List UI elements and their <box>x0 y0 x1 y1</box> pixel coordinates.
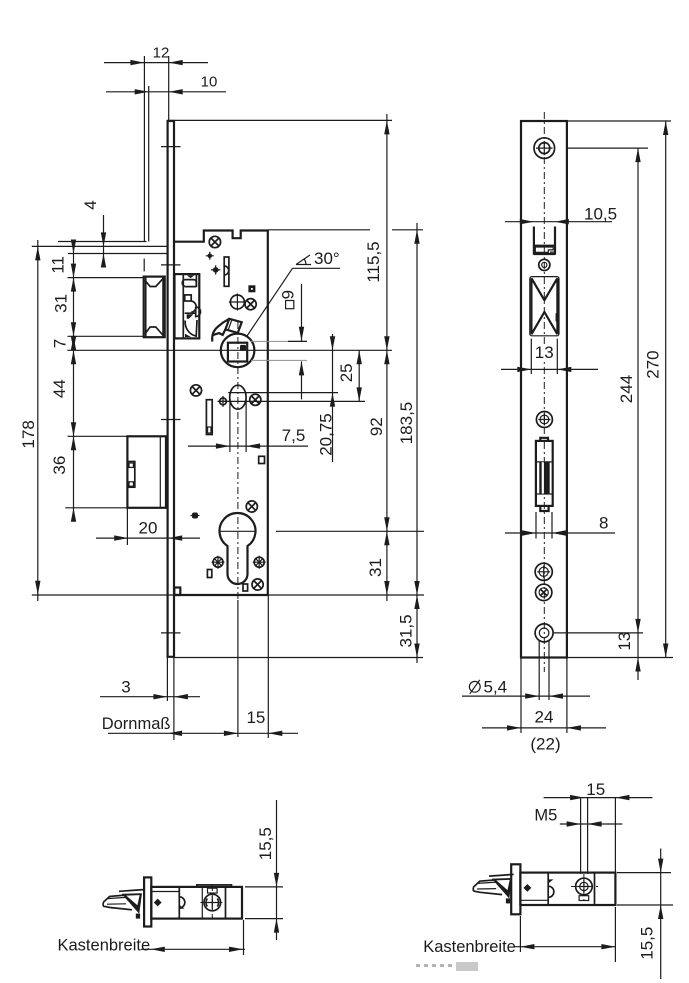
screw beside crosshair <box>245 299 256 310</box>
svg-text:7: 7 <box>51 339 70 348</box>
dimension 10,5 <box>505 205 617 234</box>
svg-text:20,75: 20,75 <box>317 413 336 456</box>
latch tail plate lines <box>32 242 168 272</box>
latch top extension <box>68 277 144 279</box>
M5 thread extension lines <box>581 798 588 874</box>
screw right of oval <box>250 394 261 405</box>
faceplate (Stulp) front view <box>168 121 174 657</box>
diamond rivet left view <box>154 899 162 907</box>
vertical centreline of lock axis <box>237 322 239 737</box>
screw above cylinder <box>246 501 257 512</box>
follower centreline <box>67 349 392 351</box>
spring slot <box>224 257 229 286</box>
guide slot <box>206 400 212 435</box>
svg-text:15: 15 <box>246 708 265 727</box>
latch nose right view <box>473 874 513 903</box>
dimension 15 bottom <box>544 780 653 873</box>
small rectangle mark <box>207 570 211 578</box>
dimension 10 <box>106 74 226 95</box>
dimension 13 lower <box>615 632 641 680</box>
svg-text:44: 44 <box>50 379 69 398</box>
top countersunk screw hole <box>534 138 555 159</box>
faceplate plan outline <box>521 121 567 658</box>
screw hole 3 <box>536 412 552 428</box>
deadbolt box <box>127 436 166 508</box>
rivet 2 <box>211 265 220 274</box>
svg-text:(22): (22) <box>530 735 560 754</box>
dimension 20 <box>96 519 200 541</box>
svg-text:270: 270 <box>644 350 663 378</box>
label 7 <box>51 339 70 348</box>
case top extension line <box>268 229 423 231</box>
lock case top view right <box>520 873 615 905</box>
rivet small <box>206 252 214 260</box>
svg-text:10: 10 <box>201 74 218 91</box>
svg-text:13: 13 <box>535 343 554 362</box>
faceplate bottom extension <box>567 657 673 659</box>
euro profile cylinder hole <box>219 513 255 584</box>
adjuster screw right <box>253 556 266 569</box>
dimension 15,5 right <box>617 849 673 980</box>
faceplate centreline <box>543 112 545 672</box>
svg-text:178: 178 <box>19 420 38 448</box>
dimension 20,75 <box>317 334 336 462</box>
label 36 <box>50 456 69 475</box>
bottom fixing hole <box>535 624 643 642</box>
deadbolt slot <box>536 438 553 511</box>
svg-text:25: 25 <box>337 363 356 382</box>
svg-text:183,5: 183,5 <box>397 402 416 445</box>
small black pin <box>191 513 200 519</box>
dimension Kastenbreite left <box>58 920 246 955</box>
svg-text:9: 9 <box>278 290 297 299</box>
dimension 244 <box>617 148 641 633</box>
svg-text:5,4: 5,4 <box>484 678 508 697</box>
top screw centre extension <box>567 147 648 149</box>
follower (Drueckernuss) <box>212 319 254 367</box>
dimension 15,5 left <box>245 800 283 940</box>
svg-text:Kastenbreite: Kastenbreite <box>423 938 516 956</box>
label 31 left <box>52 294 71 313</box>
dimension 25 <box>337 350 362 401</box>
svg-text:Dornmaß: Dornmaß <box>102 715 171 733</box>
screw left of follower <box>190 385 201 396</box>
svg-text:92: 92 <box>367 417 386 436</box>
faceplate section bar right <box>511 864 520 914</box>
svg-text:12: 12 <box>153 45 170 62</box>
svg-text:M5: M5 <box>534 807 557 825</box>
svg-text:4: 4 <box>81 200 100 209</box>
latch bolt head <box>144 277 165 338</box>
label 44 <box>50 379 69 398</box>
svg-text:244: 244 <box>617 375 636 403</box>
lower extension verticals <box>127 400 268 740</box>
svg-text:30°: 30° <box>314 249 340 268</box>
cylinder screw right view <box>571 874 598 904</box>
dimension 8 <box>505 512 615 539</box>
dimension 3 <box>100 678 200 700</box>
svg-text:15,5: 15,5 <box>638 927 657 960</box>
svg-text:31: 31 <box>366 558 385 577</box>
dimension M5 <box>534 807 622 827</box>
faceplate top extension line <box>167 119 392 121</box>
small d mark <box>243 584 248 591</box>
faceplate bottom extension <box>175 657 424 659</box>
square hole edge lines <box>251 341 307 360</box>
latch nose left view <box>103 890 143 919</box>
cylinder centre extension <box>276 530 424 532</box>
dimension 13 upper <box>501 339 598 374</box>
dimension diameter 5,4 <box>462 640 590 700</box>
screw bottom right <box>252 579 263 590</box>
dimension 270 <box>644 121 669 658</box>
svg-text:11: 11 <box>49 256 68 274</box>
svg-text:24: 24 <box>535 708 554 727</box>
faceplate section bar left <box>144 877 151 926</box>
svg-text:Kastenbreite: Kastenbreite <box>58 937 151 955</box>
label 11 <box>49 256 68 274</box>
angle 30 degree annotation <box>247 249 340 336</box>
circle with crosshair <box>229 294 246 311</box>
dimension 24 <box>482 658 606 733</box>
label (22) <box>530 735 560 754</box>
dimension Dornmass and 15 <box>102 708 298 736</box>
latch bottom extension <box>68 335 144 337</box>
svg-text:7,5: 7,5 <box>282 426 306 445</box>
dimension 12 <box>104 45 208 66</box>
bowtie slot <box>530 277 559 336</box>
dimension square 9 <box>278 284 304 399</box>
box bottom extension <box>65 507 164 509</box>
left chain dimension line <box>71 240 76 522</box>
faint artifact marks <box>416 962 478 971</box>
latch tail vertical lines <box>144 56 168 242</box>
svg-text:31: 31 <box>52 294 71 313</box>
screw hole 5 <box>536 584 552 600</box>
svg-text:36: 36 <box>50 456 69 475</box>
lock case top view left <box>151 885 242 919</box>
oval reference lines <box>218 393 365 402</box>
oval cylinder-screw hole <box>230 385 246 409</box>
case bottom extension <box>32 594 424 596</box>
diamond rivet right view <box>524 884 532 892</box>
svg-text:20: 20 <box>139 519 158 538</box>
svg-text:8: 8 <box>599 514 608 533</box>
svg-text:10,5: 10,5 <box>584 205 617 224</box>
dimension 7,5 <box>188 426 308 449</box>
screw hole 4 <box>535 563 552 580</box>
faceplate screw-hole centre ticks <box>161 147 181 633</box>
box top extension <box>68 435 128 437</box>
svg-text:15: 15 <box>586 780 605 799</box>
dimension Kastenbreite right <box>423 907 616 962</box>
cylinder screw left view <box>200 884 225 918</box>
screw top <box>209 236 220 247</box>
dimension 183,5 / 31,5 line <box>397 223 420 663</box>
dimension 115,5 / 92 / 31 line <box>364 114 390 601</box>
small crosshair mark <box>218 396 229 407</box>
top edge extension <box>567 120 671 122</box>
latch slot <box>534 227 555 255</box>
small black square with dot <box>248 285 255 292</box>
svg-text:15,5: 15,5 <box>256 827 275 860</box>
svg-text:115,5: 115,5 <box>364 241 383 282</box>
svg-text:31,5: 31,5 <box>397 614 416 647</box>
latch housing inside case <box>175 274 201 338</box>
svg-text:3: 3 <box>121 678 130 697</box>
adjuster screw left <box>212 556 225 569</box>
dimension 4 <box>81 200 106 267</box>
lock case outline <box>174 231 267 596</box>
dimension 178 <box>19 240 41 601</box>
small square cutout <box>259 456 265 463</box>
small screw hole 2 <box>539 259 550 270</box>
svg-text:13: 13 <box>615 632 634 651</box>
